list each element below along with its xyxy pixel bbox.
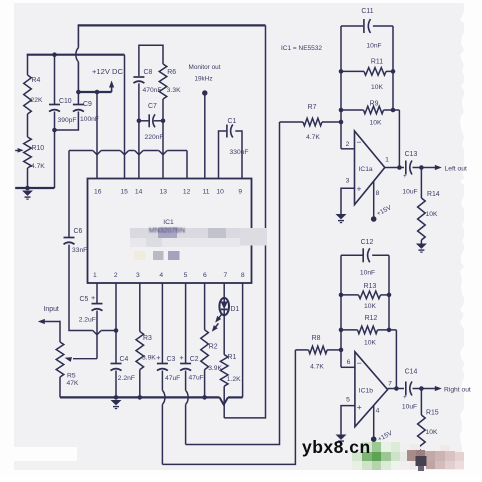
- svg-text:IC1a: IC1a: [359, 166, 373, 173]
- wire pin4 to C3: [161, 283, 163, 363]
- wire IC1b feedback left vertical: [340, 255, 342, 367]
- svg-text:R8: R8: [312, 335, 321, 342]
- node junction R13 right: [387, 293, 392, 298]
- svg-text:5: 5: [346, 397, 350, 404]
- svg-text:C5: C5: [80, 296, 89, 303]
- svg-text:7: 7: [388, 381, 392, 388]
- svg-text:10K: 10K: [364, 303, 376, 310]
- node junction output fb: [397, 165, 402, 170]
- wire pin8 riser: [242, 283, 244, 397]
- +15V dot IC1b: [371, 436, 377, 442]
- Monitor out terminal: [202, 90, 207, 95]
- svg-text:16: 16: [94, 189, 102, 196]
- capacitor C1 inline: [219, 131, 227, 179]
- svg-text:+: +: [357, 402, 362, 412]
- wire pin15 feed: [124, 55, 126, 179]
- wire C8 bottom: [138, 83, 140, 121]
- svg-text:470nF: 470nF: [143, 87, 162, 94]
- Left out terminal arrow: [435, 165, 442, 170]
- svg-text:2: 2: [114, 272, 118, 279]
- node junction R11 right: [391, 69, 396, 74]
- svg-text:+: +: [91, 293, 95, 302]
- svg-text:12: 12: [183, 189, 191, 196]
- svg-text:1: 1: [93, 272, 97, 279]
- svg-text:390pF: 390pF: [58, 117, 77, 124]
- svg-text:R13: R13: [364, 283, 377, 290]
- svg-text:10nF: 10nF: [366, 43, 381, 50]
- svg-text:10K: 10K: [426, 211, 438, 218]
- wire pin14 feed: [138, 121, 140, 179]
- capacitor C3: [157, 363, 168, 365]
- wire IC1b power pin4: [373, 406, 375, 437]
- svg-text:10K: 10K: [371, 84, 383, 91]
- svg-text:−: −: [357, 358, 362, 368]
- wire C10 bottom: [54, 112, 56, 189]
- wire IC1b output: [388, 388, 404, 390]
- svg-text:R5: R5: [67, 373, 76, 380]
- svg-text:4.7K: 4.7K: [31, 163, 45, 170]
- svg-text:C3: C3: [167, 356, 176, 363]
- capacitor C6: [64, 237, 75, 239]
- svg-text:11: 11: [203, 189, 210, 196]
- wire C2 hop across rail: [185, 371, 187, 391]
- svg-text:3: 3: [136, 272, 140, 279]
- node junction R7 out: [339, 120, 344, 125]
- svg-text:R12: R12: [365, 315, 378, 322]
- svg-text:19kHz: 19kHz: [194, 76, 212, 83]
- R5 wiper arrow: [73, 358, 97, 360]
- node junction R15 top: [419, 386, 424, 391]
- ground symbol left: [22, 191, 33, 196]
- svg-text:2: 2: [346, 141, 350, 148]
- svg-text:4: 4: [159, 272, 163, 279]
- svg-text:+: +: [357, 184, 362, 194]
- svg-text:8: 8: [376, 190, 380, 197]
- svg-text:C9: C9: [83, 101, 92, 108]
- capacitor C12 inline: [341, 254, 363, 256]
- resistor R4: [27, 54, 29, 75]
- node junction R12 left: [339, 328, 344, 333]
- svg-text:3.9K: 3.9K: [142, 355, 156, 362]
- wire pin11 feed: [204, 93, 206, 179]
- node junction C10 top: [52, 52, 57, 57]
- node junction R14 top: [419, 165, 424, 170]
- node junction R13 left: [339, 293, 344, 298]
- wire D1 to R1: [223, 314, 225, 354]
- svg-text:10K: 10K: [364, 340, 376, 347]
- svg-text:14: 14: [135, 189, 143, 196]
- resistor R9: [341, 109, 364, 111]
- svg-text:C7: C7: [148, 103, 157, 110]
- ground symbol main: [111, 400, 122, 405]
- svg-text:C10: C10: [59, 98, 72, 105]
- resistor R10 adjustable: [24, 137, 32, 168]
- op-amp U1a triangle: [355, 131, 385, 205]
- svg-text:9: 9: [238, 189, 242, 196]
- svg-text:R10: R10: [32, 145, 45, 152]
- svg-text:IC1 = NE5532: IC1 = NE5532: [281, 45, 322, 52]
- svg-text:4.7K: 4.7K: [306, 134, 320, 141]
- svg-text:10K: 10K: [426, 429, 438, 436]
- wire top +12V rail: [78, 24, 265, 26]
- node junction R9 right: [391, 108, 396, 113]
- svg-text:IC1: IC1: [163, 219, 174, 226]
- node junction R2 gnd: [202, 395, 207, 400]
- ground symbol R14: [416, 244, 427, 249]
- op-amp U1b triangle: [355, 352, 388, 427]
- D1 emission arrows: [217, 314, 222, 321]
- wire rail to C9 branch with hop over lower rail: [77, 24, 79, 47]
- wire left ground rail: [15, 187, 54, 189]
- resistor R6: [159, 64, 167, 99]
- wire C5 to wiper: [96, 311, 98, 359]
- resistor R7: [280, 121, 304, 123]
- node junction pin13 top: [161, 119, 166, 124]
- svg-text:IC1b: IC1b: [359, 388, 373, 395]
- ground symbol R15 dark pixelated: [416, 456, 427, 466]
- wire IC1a feedback right vertical: [392, 26, 394, 110]
- svg-text:4.7K: 4.7K: [310, 364, 324, 371]
- wire C4 to gnd: [115, 371, 117, 398]
- svg-text:ybx8.cn: ybx8.cn: [302, 437, 371, 457]
- wire noninverting input b: [341, 406, 355, 435]
- wire noninverting input: [341, 188, 355, 214]
- wire pin7 to D1: [223, 283, 225, 300]
- svg-text:330nF: 330nF: [230, 149, 249, 156]
- wire R9 to output: [398, 110, 400, 168]
- svg-text:+: +: [403, 173, 407, 180]
- wire C2 loop to R7: [186, 122, 280, 445]
- wire pin1 to C5: [96, 283, 98, 303]
- svg-text:1.2K: 1.2K: [227, 376, 241, 383]
- wire C6 bottom to pin2 net: [69, 245, 93, 331]
- node junction pin2: [114, 328, 119, 333]
- wire second rail y55: [27, 54, 125, 56]
- svg-text:47uF: 47uF: [165, 375, 180, 382]
- wire R1 loop to +12V rail: [224, 25, 265, 418]
- resistor R12: [341, 329, 358, 331]
- svg-text:2.2nF: 2.2nF: [118, 375, 135, 382]
- node junction R11 left: [339, 69, 344, 74]
- node junction output fb b: [394, 386, 399, 391]
- svg-text:Left out: Left out: [445, 166, 467, 173]
- resistor R3: [139, 283, 141, 332]
- svg-text:3.3K: 3.3K: [167, 87, 181, 94]
- node junction R9 left: [339, 108, 344, 113]
- svg-text:+: +: [156, 353, 160, 362]
- svg-text:2.2uF: 2.2uF: [79, 317, 96, 324]
- wire +12V feed horizontal: [78, 91, 112, 93]
- svg-text:15: 15: [120, 189, 128, 196]
- capacitor C5: [92, 303, 103, 305]
- svg-text:6: 6: [347, 359, 351, 366]
- R10 wiper arrow: [15, 150, 20, 152]
- wire IC1a output: [385, 167, 404, 169]
- LED D1: [219, 298, 229, 315]
- svg-text:100nF: 100nF: [80, 116, 99, 123]
- resistor R5 pot: [56, 342, 64, 377]
- svg-text:+: +: [403, 394, 407, 401]
- svg-text:R7: R7: [308, 104, 317, 111]
- svg-text:R15: R15: [426, 410, 439, 417]
- capacitor C9: [77, 92, 79, 104]
- svg-text:D1: D1: [231, 306, 240, 313]
- resistor R11: [341, 70, 364, 72]
- svg-text:33nF: 33nF: [72, 247, 87, 254]
- svg-text:R6: R6: [167, 69, 176, 76]
- svg-text:Monitor out: Monitor out: [189, 64, 221, 71]
- svg-text:1: 1: [385, 157, 389, 164]
- wire IC1a power pin8: [373, 182, 375, 217]
- svg-text:R4: R4: [32, 77, 41, 84]
- Input terminal arrow: [38, 319, 45, 324]
- wire input to R5: [59, 321, 61, 342]
- resistor R15: [420, 389, 422, 416]
- watermark mosaic IC interior: [130, 228, 267, 238]
- capacitor C8: [133, 76, 144, 78]
- svg-text:8: 8: [241, 272, 245, 279]
- svg-text:10K: 10K: [370, 120, 382, 127]
- svg-text:R9: R9: [370, 101, 379, 108]
- ground symbol IC1b input: [336, 435, 347, 440]
- resistor R2: [204, 283, 206, 330]
- +12V DC terminal arrow: [111, 84, 113, 92]
- svg-text:MN3207BN: MN3207BN: [149, 228, 185, 235]
- node junction C10-C9 bottom: [52, 128, 57, 133]
- wire C8-R6 top bracket: [139, 45, 163, 76]
- node junction R8 out: [339, 348, 344, 353]
- wire to Right out: [421, 388, 437, 390]
- svg-text:C8: C8: [144, 69, 153, 76]
- svg-text:22K: 22K: [31, 97, 43, 104]
- svg-text:10uF: 10uF: [402, 404, 417, 411]
- wire C9 bottom to join: [55, 112, 79, 131]
- node junction ground left: [25, 186, 30, 191]
- wire C3 hop across rail: [161, 371, 163, 391]
- wire to Left out: [421, 167, 437, 169]
- svg-text:C1: C1: [228, 118, 237, 125]
- svg-text:5: 5: [184, 272, 188, 279]
- wire R1 through rail notch: [223, 386, 225, 418]
- watermark mosaic bottom: [362, 442, 372, 452]
- ground symbol IC1a input: [336, 214, 347, 219]
- wire C6 top from bus: [68, 151, 70, 238]
- wire pin2 to C4: [115, 283, 117, 363]
- svg-text:R11: R11: [371, 59, 383, 66]
- svg-text:C4: C4: [120, 356, 129, 363]
- svg-text:13: 13: [160, 189, 168, 196]
- wire R4 to R10: [27, 114, 29, 137]
- wire IC1b feedback right vertical: [388, 255, 390, 330]
- wire pin5 to C2: [185, 283, 187, 363]
- svg-text:R14: R14: [427, 191, 440, 198]
- Right out terminal arrow: [435, 386, 442, 391]
- wire pin13 feed: [162, 121, 164, 179]
- resistor R1: [220, 355, 228, 387]
- svg-text:C14: C14: [405, 369, 418, 376]
- svg-text:10nF: 10nF: [360, 270, 375, 277]
- wire pin12 feed: [186, 151, 188, 179]
- wire bus with hops to pin12: [69, 150, 93, 152]
- node junction C4 gnd: [114, 395, 119, 400]
- resistor R8: [295, 349, 308, 351]
- svg-text:3: 3: [346, 178, 350, 185]
- svg-text:10: 10: [216, 189, 224, 196]
- node junction R12 right: [387, 328, 392, 333]
- svg-text:+12V DC: +12V DC: [92, 67, 124, 76]
- wire IC1a feedback left vertical: [340, 26, 342, 149]
- node junction C9 top: [76, 90, 81, 95]
- capacitor C4: [111, 363, 122, 365]
- node junction pin14 top: [137, 119, 142, 124]
- capacitor C2: [180, 363, 191, 365]
- wire C3 loop to R8: [162, 350, 295, 465]
- svg-text:Right out: Right out: [444, 387, 471, 394]
- svg-text:−: −: [357, 137, 362, 147]
- svg-text:C12: C12: [361, 239, 374, 246]
- svg-text:Input: Input: [44, 306, 59, 313]
- +15V dot IC1a: [371, 216, 377, 222]
- resistor R13: [341, 294, 359, 296]
- capacitor C11 inline: [341, 25, 363, 27]
- wire inverting input: [341, 148, 355, 150]
- node junction pin16 feed: [95, 90, 100, 95]
- node junction R3 gnd: [138, 395, 143, 400]
- wire ground rail: [60, 396, 220, 398]
- resistor R14: [420, 168, 422, 199]
- wire inverting input b: [341, 366, 355, 368]
- IC U1 box: [88, 179, 252, 284]
- svg-text:47uF: 47uF: [189, 375, 204, 382]
- capacitor C7 inline: [139, 120, 149, 122]
- svg-text:C6: C6: [74, 228, 83, 235]
- svg-text:10uF: 10uF: [402, 189, 417, 196]
- svg-text:220nF: 220nF: [145, 134, 164, 141]
- svg-text:+: +: [179, 353, 183, 362]
- svg-text:6: 6: [203, 272, 207, 279]
- svg-text:7: 7: [224, 272, 228, 279]
- svg-text:C2: C2: [190, 356, 199, 363]
- svg-text:R3: R3: [143, 335, 152, 342]
- wire pin16 feed: [96, 92, 98, 179]
- svg-text:C11: C11: [361, 8, 373, 15]
- svg-text:47K: 47K: [67, 380, 79, 387]
- capacitor C14 inline: [405, 382, 407, 396]
- svg-text:C13: C13: [405, 151, 418, 158]
- svg-text:4: 4: [376, 408, 380, 415]
- capacitor C13 inline: [405, 161, 407, 175]
- capacitor C10: [54, 54, 56, 104]
- svg-text:R2: R2: [209, 344, 218, 351]
- svg-text:R1: R1: [228, 354, 237, 361]
- wire R12 to output: [395, 330, 397, 389]
